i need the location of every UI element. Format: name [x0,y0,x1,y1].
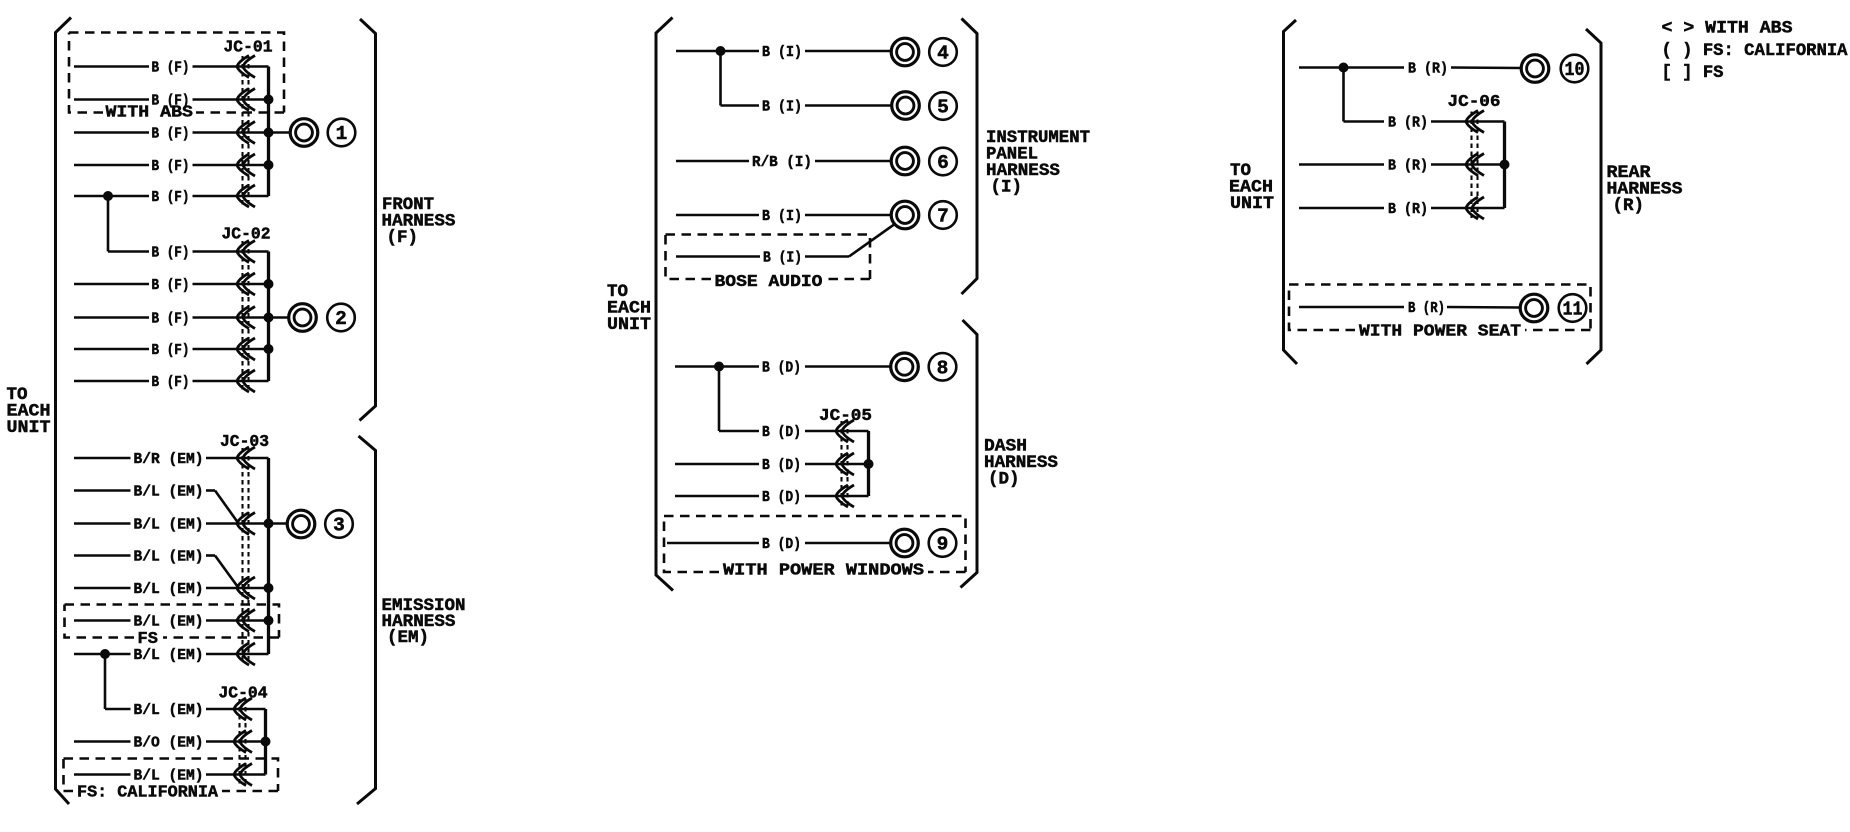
svg-text:[ ] FS: [ ] FS [1662,63,1724,83]
svg-text:B/R (EM): B/R (EM) [134,451,204,468]
legend FS: CALIFORNIA [1662,41,1848,61]
harness bracket TO EACH UNIT (middle) [656,18,673,591]
ground point 4 [891,38,919,66]
wire bus JC-04 [264,709,267,775]
svg-text:(D): (D) [988,470,1020,490]
ground number 11 [1559,294,1587,322]
wire B (F) front row 10 [74,374,269,391]
wire B/L (EM) row 5 [74,581,269,598]
wire bus JC-05 [867,431,870,496]
wire bus JC-03 [267,458,270,654]
junction connector JC-05 [819,406,872,507]
wire B (D) row 8 [675,360,891,377]
ground number 10 [1561,55,1589,83]
wire B (D) power windows [667,536,891,553]
svg-text:B/L (EM): B/L (EM) [134,549,204,566]
ground point 10 [1521,55,1549,83]
junction dot [264,344,274,354]
svg-text:B (D): B (D) [762,457,801,474]
svg-text:R/B (I): R/B (I) [752,154,812,171]
condition box WITH POWER SEAT [1289,285,1591,342]
svg-text:JC-02: JC-02 [222,225,271,244]
ground point 1 [290,119,318,147]
junction dot [1500,160,1510,170]
ground number 7 [929,201,957,229]
wire B (F) front row 4 [74,158,269,175]
svg-text:B (R): B (R) [1408,300,1445,317]
svg-text:1: 1 [336,123,348,145]
svg-text:B (F): B (F) [152,126,190,143]
wire ground stub 1 [269,131,291,134]
svg-text:8: 8 [937,357,949,379]
svg-text:3: 3 [333,515,345,537]
node branch emission row7 [100,649,110,709]
wire B (I) row 7 [676,208,891,225]
harness bracket INSTRUMENT (right) [962,19,978,295]
svg-text:B/L (EM): B/L (EM) [134,647,204,664]
svg-text:B (F): B (F) [152,245,190,262]
svg-text:10: 10 [1565,59,1585,81]
svg-text:B (F): B (F) [152,311,190,328]
junction connector JC-06 [1448,92,1501,219]
svg-text:B (F): B (F) [152,60,190,77]
svg-text:(R): (R) [1613,196,1645,216]
condition box FS [65,605,280,650]
svg-text:( ) FS: CALIFORNIA: ( ) FS: CALIFORNIA [1662,41,1848,61]
svg-text:JC-01: JC-01 [224,38,273,57]
wire B (F) front row 9 [74,342,269,359]
condition box WITH POWER WINDOWS [664,516,966,581]
svg-text:B (R): B (R) [1388,158,1428,175]
harness bracket FRONT (right) [360,19,376,421]
svg-text:B (R): B (R) [1388,201,1428,218]
harness bracket REAR (right) [1586,29,1601,364]
label TO EACH UNIT (rear) [1229,161,1274,214]
svg-text:B/O (EM): B/O (EM) [134,735,204,752]
wire B (F) front row 7 [74,277,269,294]
junction dot [261,737,271,747]
svg-text:BOSE AUDIO: BOSE AUDIO [715,273,823,292]
wire B (F) front row 2 [74,93,269,110]
label EMISSION HARNESS (EM) [382,596,466,648]
svg-text:B (R): B (R) [1408,61,1448,78]
node branch rear row10 [1339,63,1349,122]
condition box BOSE AUDIO [666,235,871,293]
junction dot [264,95,274,105]
junction connector JC-02 [222,225,271,393]
wire B (F) front row 8 [74,311,269,328]
legend FS [1662,63,1724,83]
wire B (I) bose audio [676,224,896,267]
svg-text:B (F): B (F) [152,158,190,175]
harness bracket EMISSION (right) [357,436,376,804]
svg-text:11: 11 [1563,299,1583,321]
svg-text:5: 5 [937,97,949,119]
junction dot [864,459,874,469]
svg-text:B (D): B (D) [762,536,801,553]
node branch instrument row4 [716,46,726,106]
harness bracket TO EACH UNIT (left) [56,18,72,805]
svg-text:(EM): (EM) [387,628,429,648]
wire B (F) front row 1 [74,60,269,77]
svg-text:JC-04: JC-04 [219,684,268,703]
ground number 9 [929,529,957,557]
ground number 1 [328,119,356,147]
svg-text:B (D): B (D) [762,489,801,506]
wire B (R) row 10 [1299,61,1521,78]
svg-text:6: 6 [937,152,949,174]
svg-text:JC-05: JC-05 [819,406,872,425]
wire B/L (EM) row 7 [74,647,269,664]
svg-text:(F): (F) [387,228,419,248]
ground number 5 [929,92,957,120]
condition box WITH ABS [69,33,284,123]
wire B (R) power seat [1299,300,1520,317]
junction dot [264,279,274,289]
svg-text:B (F): B (F) [152,374,190,391]
svg-text:B (I): B (I) [763,250,802,267]
ground number 3 [325,510,353,538]
svg-text:JC-06: JC-06 [1448,92,1501,111]
svg-text:< > WITH ABS: < > WITH ABS [1662,19,1793,39]
junction dot [264,519,274,529]
svg-text:UNIT: UNIT [7,418,51,438]
svg-text:FS: FS [138,630,158,649]
label FRONT HARNESS (F) [382,195,456,248]
ground point 9 [891,529,919,557]
ground number 4 [929,38,957,66]
junction dot [264,128,274,138]
wire B (F) front row 6 [108,245,269,262]
wire B (D) jc row 1 [719,424,869,441]
label INSTRUMENT PANEL HARNESS (I) [986,128,1090,198]
wire B/O (EM) row 9 [74,735,266,752]
svg-text:WITH POWER SEAT: WITH POWER SEAT [1359,323,1521,342]
svg-text:B/L (EM): B/L (EM) [134,484,204,501]
wire B (F) front row 5 [74,189,269,206]
svg-text:WITH ABS: WITH ABS [106,104,194,123]
junction connector JC-01 [224,38,273,208]
svg-text:FS: CALIFORNIA: FS: CALIFORNIA [77,784,219,803]
junction connector JC-03 [220,432,269,665]
wire bus JC-06 [1503,122,1506,209]
wire B (R) jc row 3 [1299,201,1505,218]
svg-text:B/L (EM): B/L (EM) [134,517,204,534]
svg-text:B/L (EM): B/L (EM) [134,581,204,598]
node branch front row5 [103,191,113,252]
svg-text:B (D): B (D) [762,424,801,441]
svg-text:UNIT: UNIT [607,315,651,335]
ground point 11 [1520,294,1548,322]
label REAR HARNESS (R) [1607,163,1683,216]
wire B/L (EM) row 4 [74,549,238,587]
wire bus JC-02 [267,252,270,382]
label TO EACH UNIT (middle) [607,282,651,335]
svg-text:B (F): B (F) [152,277,190,294]
ground point 8 [891,353,919,381]
wire B/L (EM) row 8 [105,702,266,719]
svg-text:B (I): B (I) [762,208,802,225]
wire B/R (EM) row 1 [74,451,269,468]
wire B (D) jc row 2 [675,457,869,474]
svg-text:B (F): B (F) [152,189,190,206]
wire ground stub 2 [269,316,290,319]
wire R/B (I) row 6 [676,154,891,171]
svg-text:UNIT: UNIT [1230,194,1274,214]
svg-text:B (F): B (F) [152,342,190,359]
svg-text:WITH POWER WINDOWS: WITH POWER WINDOWS [723,562,924,581]
label DASH HARNESS (D) [984,437,1058,490]
label TO EACH UNIT (left) [7,385,51,438]
junction dot [264,616,274,626]
junction dot [264,313,274,323]
wire B (I) row 5 [721,99,892,116]
wire B (F) front row 3 [74,126,269,143]
svg-text:B/L (EM): B/L (EM) [134,614,204,631]
ground point 7 [891,201,919,229]
ground number 6 [929,148,957,176]
svg-text:7: 7 [937,206,949,228]
ground point 6 [891,147,919,175]
ground point 2 [289,304,317,332]
svg-text:2: 2 [335,308,347,330]
wire bus JC-01 [267,67,270,197]
svg-text:B/L (EM): B/L (EM) [134,702,204,719]
svg-text:B (D): B (D) [762,360,801,377]
svg-text:B (R): B (R) [1388,115,1428,132]
junction dot [264,583,274,593]
wire B/L (EM) row 6 [74,614,269,631]
junction dot [264,160,274,170]
wire B (I) row 4 [676,44,891,61]
harness bracket TO EACH UNIT (rear) [1284,20,1298,364]
ground number 8 [929,353,957,381]
svg-text:B (I): B (I) [762,99,802,116]
ground point 3 [287,510,315,538]
svg-text:JC-03: JC-03 [220,432,269,451]
wire B (R) jc row 2 [1299,158,1505,175]
wire ground stub 3 [269,522,289,525]
wire B/L (EM) row 2 [74,484,238,523]
wire B (D) jc row 3 [675,489,869,506]
svg-text:(I): (I) [991,178,1023,198]
wire B/L (EM) row 10 [74,768,266,785]
harness bracket DASH (right) [961,320,978,588]
ground point 5 [892,92,920,120]
svg-text:4: 4 [937,43,949,65]
wire B (R) jc row 1 [1344,115,1505,132]
svg-text:B/L (EM): B/L (EM) [134,768,204,785]
node branch dash row8 [714,362,724,432]
svg-text:B (I): B (I) [762,44,802,61]
svg-text:9: 9 [937,534,949,556]
ground number 2 [327,304,355,332]
junction connector JC-04 [219,684,268,786]
legend WITH ABS [1662,19,1793,39]
wire B/L (EM) row 3 [74,517,269,534]
condition box FS: CALIFORNIA [64,759,279,803]
